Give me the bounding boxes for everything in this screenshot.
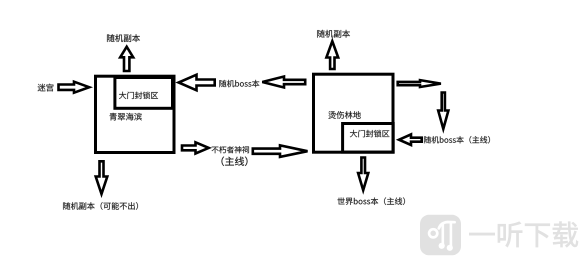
- arrow down east of 烫伤林地: [438, 93, 448, 129]
- label 青翠海滨: [109, 113, 141, 121]
- watermark logo rounded square: [420, 215, 461, 256]
- arrow down from 烫伤林地 to 世界boss本: [358, 158, 368, 191]
- label 不朽者神祠: [212, 146, 249, 153]
- label 世界boss本（主线）: [337, 197, 404, 205]
- arrow left from 随机boss本 label into 青翠海滨: [179, 75, 215, 91]
- label 随机副本 (top left): [107, 34, 140, 42]
- arrow right from 青翠海滨 to 不朽者神祠: [182, 142, 209, 153]
- label 随机副本（可能不出）: [63, 202, 138, 210]
- arrow left from 烫伤林地 to 随机boss本 label: [262, 77, 305, 88]
- arrow down from 青翠海滨 to 随机副本(可能不出): [96, 161, 108, 194]
- watermark logo stem 2: [450, 222, 453, 246]
- arrow left from 随机boss本(主线) into 大门封锁区: [399, 134, 422, 145]
- watermark logo stem 1: [441, 224, 444, 245]
- arrow up from 烫伤林地 to 随机副本 label (right): [326, 41, 338, 69]
- arrow right from 不朽者神祠 into 烫伤林地: [253, 145, 308, 157]
- watermark logo beam stroke: [439, 222, 455, 228]
- label 大门封锁区 (right inner): [350, 130, 389, 137]
- watermark logo note circle: [429, 229, 437, 237]
- box 青翠海滨 (left zone box): [96, 76, 175, 152]
- watermark logo note head 1: [439, 243, 445, 249]
- label （主线） under 不朽者神祠: [222, 157, 248, 166]
- watermark logo note head 2: [447, 245, 453, 251]
- arrow up from 青翠海滨 to 随机副本 label: [120, 47, 133, 71]
- arrow right from 迷宫 into 青翠海滨: [59, 82, 90, 93]
- watermark text 一听下载: [469, 222, 578, 248]
- label 随机boss本（主线）: [424, 136, 490, 143]
- label 随机boss本 (between boxes): [219, 80, 259, 87]
- box 大门封锁区 (left inner box): [115, 78, 173, 109]
- label 随机副本 (top right): [317, 30, 350, 38]
- box 烫伤林地 (right zone box): [314, 74, 394, 152]
- box 大门封锁区 (right inner box): [343, 124, 394, 153]
- arrow right from 烫伤林地 east side: [398, 80, 441, 87]
- label 迷宫: [38, 84, 54, 92]
- label 烫伤林地: [328, 111, 360, 119]
- label 大门封锁区 (left inner): [119, 92, 158, 99]
